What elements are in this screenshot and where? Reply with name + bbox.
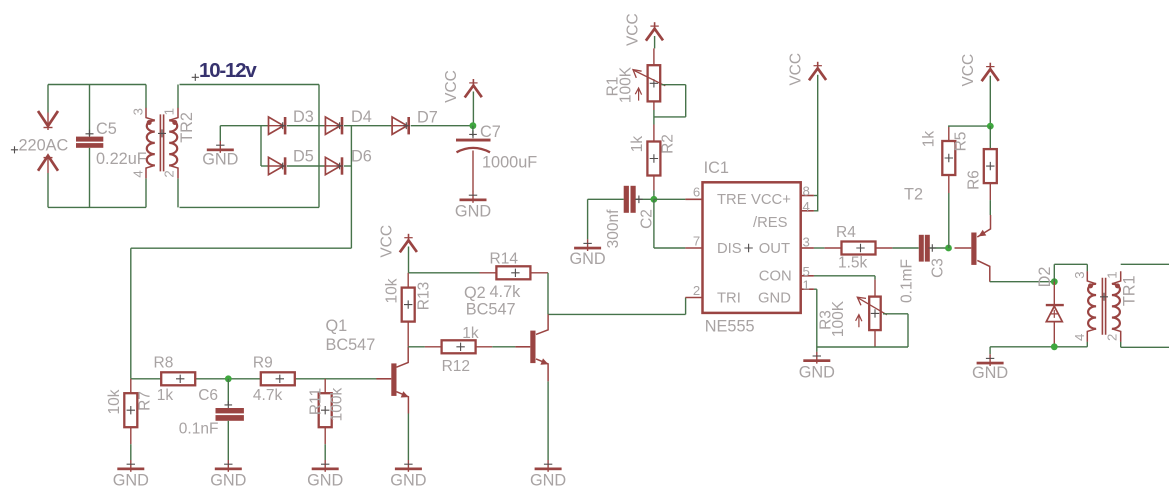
svg-text:Q1: Q1 xyxy=(326,317,348,335)
svg-text:3: 3 xyxy=(131,108,146,115)
svg-text:R8: R8 xyxy=(154,354,174,371)
svg-text:1.5k: 1.5k xyxy=(838,254,868,271)
svg-text:VCC+: VCC+ xyxy=(751,192,791,208)
svg-text:GND: GND xyxy=(799,363,835,381)
svg-text:GND: GND xyxy=(455,203,491,221)
svg-text:1k: 1k xyxy=(157,387,174,404)
svg-text:T2: T2 xyxy=(904,186,923,204)
svg-text:GND: GND xyxy=(570,250,606,268)
svg-text:GND: GND xyxy=(390,472,426,490)
svg-text:TR2: TR2 xyxy=(178,112,196,143)
svg-text:VCC: VCC xyxy=(378,225,395,258)
svg-text:R2: R2 xyxy=(659,134,676,154)
svg-text:TRI: TRI xyxy=(717,290,741,306)
svg-text:D5: D5 xyxy=(293,148,314,166)
svg-text:R11: R11 xyxy=(307,388,324,415)
svg-text:VCC: VCC xyxy=(788,53,805,86)
svg-text:6: 6 xyxy=(693,185,700,200)
svg-text:GND: GND xyxy=(307,472,343,490)
svg-text:OUT: OUT xyxy=(759,241,790,257)
svg-text:1: 1 xyxy=(1104,271,1119,278)
svg-text:R12: R12 xyxy=(442,358,470,375)
svg-text:R13: R13 xyxy=(416,282,433,310)
svg-text:1: 1 xyxy=(803,277,810,292)
svg-text:GND: GND xyxy=(202,151,238,169)
svg-text:VCC: VCC xyxy=(443,70,460,103)
svg-text:100k: 100k xyxy=(328,387,345,421)
svg-text:1k: 1k xyxy=(921,131,938,148)
svg-text:220AC: 220AC xyxy=(19,137,69,155)
svg-text:2: 2 xyxy=(162,170,177,177)
svg-text:IC1: IC1 xyxy=(704,159,729,177)
svg-text:C7: C7 xyxy=(480,123,501,141)
svg-text:3: 3 xyxy=(803,235,810,250)
svg-text:R14: R14 xyxy=(490,250,519,267)
svg-text:C5: C5 xyxy=(96,120,117,138)
svg-text:3: 3 xyxy=(1072,271,1087,278)
svg-text:D7: D7 xyxy=(417,109,438,127)
svg-text:GND: GND xyxy=(210,472,246,490)
svg-text:TRE: TRE xyxy=(717,192,747,208)
svg-text:0.1mF: 0.1mF xyxy=(898,259,915,303)
svg-text:2: 2 xyxy=(693,283,700,298)
svg-text:D2: D2 xyxy=(1036,267,1054,288)
svg-text:2: 2 xyxy=(1104,334,1119,341)
svg-text:D3: D3 xyxy=(293,108,314,126)
svg-text:/RES: /RES xyxy=(753,215,788,231)
svg-text:VCC: VCC xyxy=(624,13,641,46)
svg-text:D6: D6 xyxy=(351,148,372,166)
svg-text:TR1: TR1 xyxy=(1121,275,1139,306)
svg-text:8: 8 xyxy=(803,184,810,199)
svg-text:DIS: DIS xyxy=(717,241,742,257)
svg-text:4: 4 xyxy=(1072,334,1087,341)
svg-text:4: 4 xyxy=(131,170,146,177)
svg-text:CON: CON xyxy=(759,269,792,285)
svg-text:VCC: VCC xyxy=(960,54,977,87)
svg-text:R9: R9 xyxy=(253,354,273,371)
svg-text:R7: R7 xyxy=(137,391,154,411)
svg-text:Q2: Q2 xyxy=(464,284,486,302)
svg-text:10k: 10k xyxy=(106,389,123,414)
svg-text:BC547: BC547 xyxy=(466,301,516,319)
svg-text:1k: 1k xyxy=(629,136,646,153)
svg-text:C6: C6 xyxy=(198,387,218,404)
svg-text:GND: GND xyxy=(972,364,1008,382)
svg-text:GND: GND xyxy=(113,472,149,490)
svg-text:GND: GND xyxy=(758,290,791,306)
svg-text:NE555: NE555 xyxy=(705,318,755,336)
svg-text:100K: 100K xyxy=(617,66,634,103)
svg-text:D4: D4 xyxy=(351,108,372,126)
svg-text:10-12v: 10-12v xyxy=(199,59,257,82)
svg-text:C3: C3 xyxy=(929,258,946,278)
svg-text:1k: 1k xyxy=(462,325,479,342)
svg-text:10k: 10k xyxy=(383,278,400,303)
svg-text:1: 1 xyxy=(162,108,177,115)
svg-text:R6: R6 xyxy=(966,170,983,190)
svg-text:0.22uF: 0.22uF xyxy=(96,150,147,168)
svg-text:7: 7 xyxy=(693,233,700,248)
svg-text:100K: 100K xyxy=(830,300,847,337)
svg-text:300nf: 300nf xyxy=(605,209,622,248)
svg-text:4.7k: 4.7k xyxy=(253,387,283,404)
svg-text:0.1nF: 0.1nF xyxy=(179,421,219,438)
svg-text:4.7k: 4.7k xyxy=(490,283,522,301)
svg-text:1000uF: 1000uF xyxy=(482,154,537,172)
svg-text:C2: C2 xyxy=(638,209,655,229)
svg-text:R4: R4 xyxy=(836,224,856,241)
svg-text:GND: GND xyxy=(530,472,566,490)
svg-text:BC547: BC547 xyxy=(326,336,376,354)
svg-text:4: 4 xyxy=(803,199,810,214)
svg-text:R5: R5 xyxy=(953,132,970,152)
